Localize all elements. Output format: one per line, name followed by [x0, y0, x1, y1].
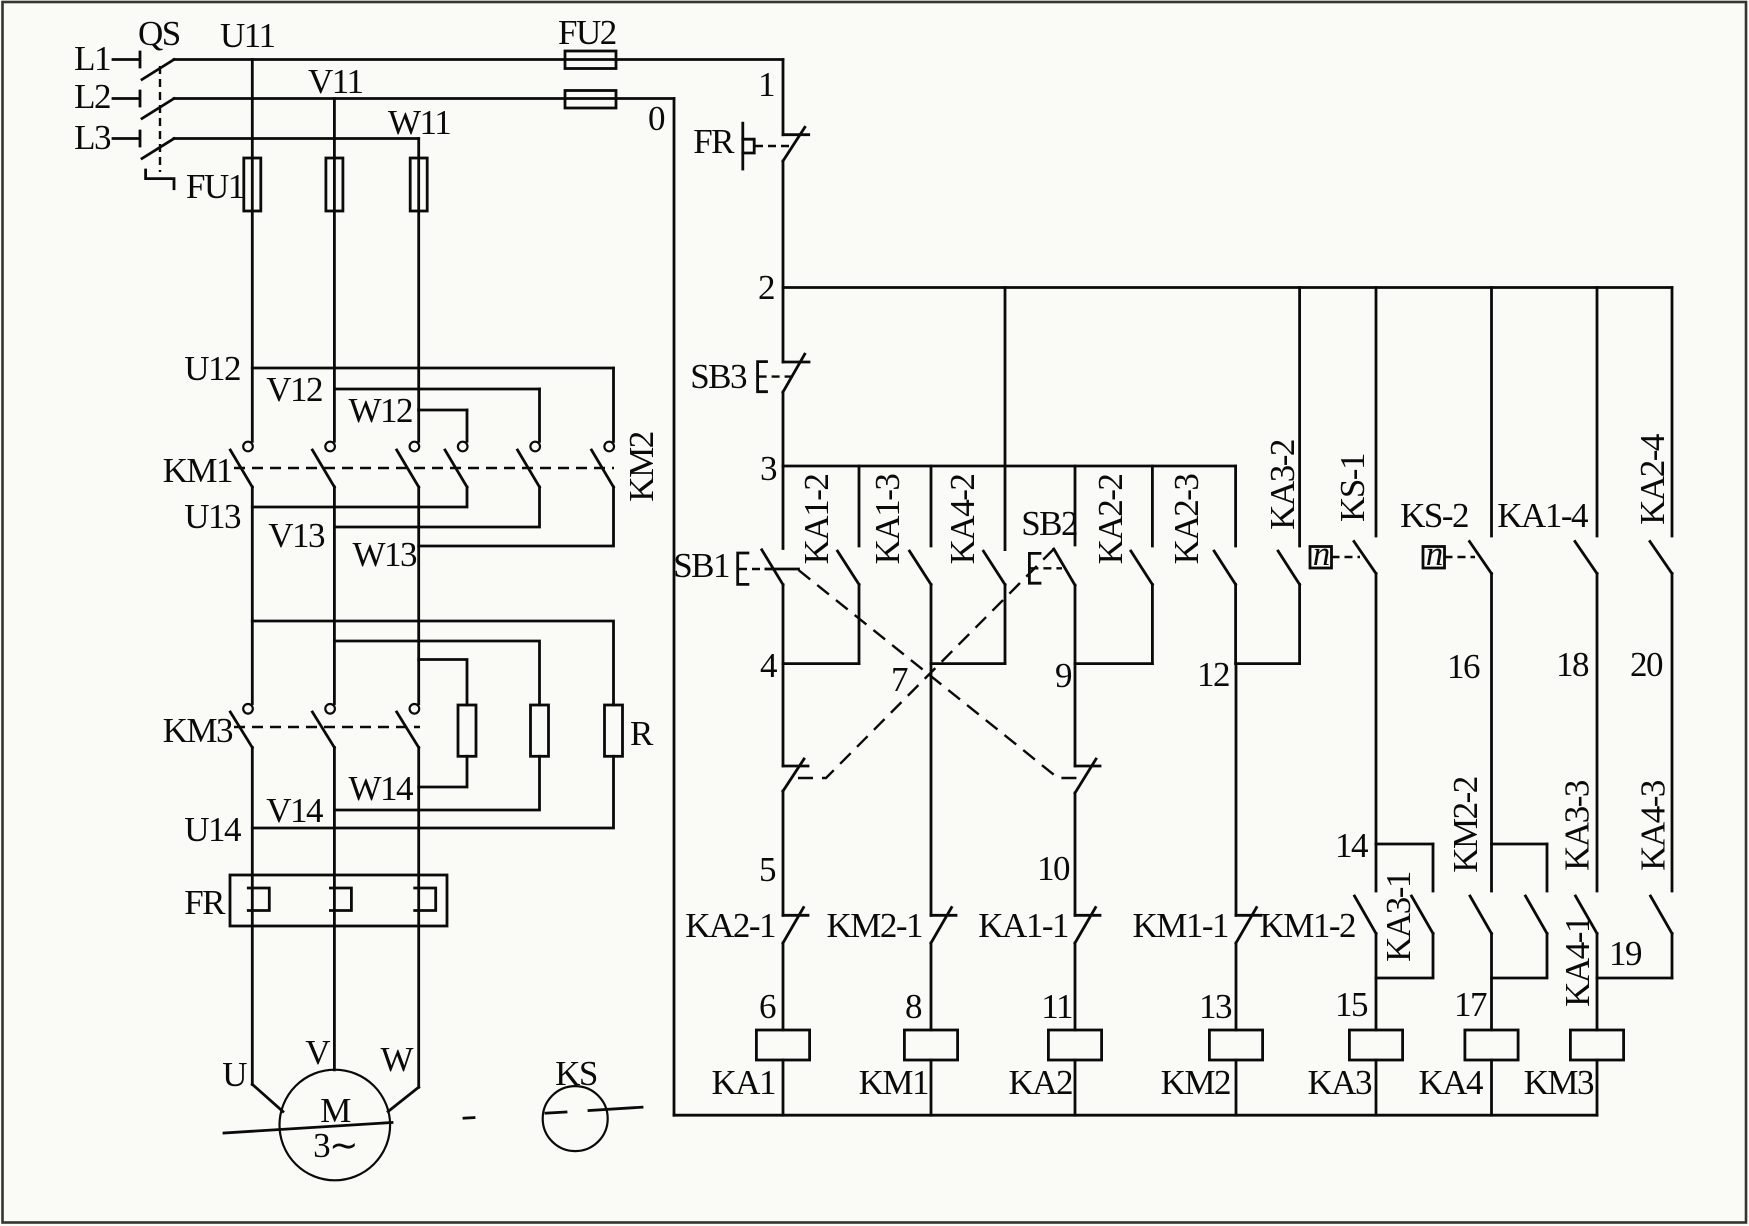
contactor KM2 main contacts [445, 368, 661, 502]
svg-text:KA3-1: KA3-1 [1379, 872, 1418, 962]
svg-text:U: U [222, 1055, 247, 1094]
svg-text:19: 19 [1609, 934, 1642, 973]
svg-text:KA1-2: KA1-2 [797, 475, 836, 565]
node 4 [760, 646, 859, 685]
svg-text:KM2-2: KM2-2 [1446, 777, 1485, 873]
resistor R (three elements) [458, 705, 654, 756]
svg-text:KM1-2: KM1-2 [1259, 906, 1355, 945]
svg-text:V12: V12 [266, 370, 322, 409]
node 12 [1197, 655, 1300, 694]
svg-text:KA3-3: KA3-3 [1558, 780, 1597, 871]
SB2 linked NC contact below node 9 [1075, 664, 1100, 916]
contact KS-1 (with n box) [1310, 288, 1376, 845]
svg-text:U11: U11 [220, 16, 274, 55]
svg-text:14: 14 [1335, 826, 1368, 865]
wire U12 [184, 349, 613, 388]
node 9 [1055, 656, 1152, 695]
svg-text:W11: W11 [388, 103, 450, 142]
wire 2 [758, 268, 1672, 307]
svg-text:U13: U13 [184, 497, 241, 536]
wire U13 [184, 487, 467, 536]
svg-text:U12: U12 [184, 349, 240, 388]
shaft coupling dash-dot line [224, 1107, 642, 1133]
svg-text:9: 9 [1055, 656, 1072, 695]
svg-text:KM1-1: KM1-1 [1132, 906, 1228, 945]
contact KA3-3 (NO) [1558, 780, 1598, 1030]
svg-text:3∼: 3∼ [313, 1126, 357, 1165]
svg-text:FU2: FU2 [558, 13, 616, 52]
node 14 [1335, 826, 1433, 865]
coil KM2 [1161, 1030, 1263, 1115]
speed switch KS [543, 1054, 608, 1151]
coil KA1 [711, 1030, 809, 1115]
svg-text:KA4-2: KA4-2 [943, 475, 982, 565]
svg-text:FU1: FU1 [186, 167, 244, 206]
svg-text:6: 6 [759, 987, 776, 1026]
contact KA1-2 [797, 466, 859, 664]
svg-text:KA4: KA4 [1418, 1063, 1483, 1102]
svg-text:12: 12 [1197, 655, 1229, 694]
svg-text:L1: L1 [74, 39, 110, 78]
SB1 mechanical link dashes [799, 570, 1084, 778]
contact KM2-2 (NO) [1446, 777, 1492, 1030]
bottom rail wire [674, 1114, 1597, 1117]
svg-text:KA2-2: KA2-2 [1091, 475, 1130, 565]
contact KM1-2 (NO) [1259, 844, 1376, 1030]
contact KA2-2 [1091, 466, 1152, 664]
svg-text:KS-1: KS-1 [1333, 454, 1372, 522]
svg-text:KA1-3: KA1-3 [868, 474, 907, 565]
coil KA3 [1307, 1030, 1402, 1115]
svg-text:SB2: SB2 [1021, 504, 1077, 543]
svg-text:20: 20 [1630, 645, 1663, 684]
svg-text:W14: W14 [348, 769, 413, 808]
wire 0 [648, 99, 674, 1116]
wire V12 [266, 370, 539, 409]
svg-text:18: 18 [1556, 645, 1589, 684]
contact KA2-4 [1633, 288, 1672, 892]
wire U-phase middle [251, 507, 254, 704]
svg-text:KM1: KM1 [859, 1063, 928, 1102]
svg-text:n: n [1313, 534, 1330, 573]
thermal relay FR heaters [184, 787, 447, 1087]
svg-text:KA2-4: KA2-4 [1633, 434, 1672, 525]
wire W14 [348, 748, 467, 809]
svg-text:KA1-1: KA1-1 [978, 906, 1068, 945]
svg-text:KA3-2: KA3-2 [1263, 440, 1302, 530]
node 7 [891, 660, 1005, 699]
SB2 mechanical link dashes [793, 549, 1054, 778]
contact KM2-1 (NC) [826, 664, 956, 1030]
svg-text:KM2-1: KM2-1 [826, 906, 922, 945]
svg-text:4: 4 [760, 646, 777, 685]
svg-text:SB3: SB3 [690, 357, 747, 396]
svg-text:KA4-3: KA4-3 [1634, 780, 1673, 871]
contact KA4-3 (NO) [1634, 780, 1673, 978]
node L3 [74, 118, 140, 157]
svg-text:W: W [380, 1040, 413, 1079]
wire V13 [268, 487, 539, 555]
coil KA4 [1418, 1030, 1518, 1115]
contact KA4-2 [943, 288, 1005, 664]
contact KA2-3 [1167, 466, 1236, 664]
node 19 [1597, 934, 1672, 978]
coil KM1 [859, 1030, 958, 1115]
svg-text:FR: FR [184, 883, 226, 922]
coil KA2 [1008, 1030, 1101, 1115]
wire W-phase upper [417, 139, 420, 411]
contact KA4-1 (NO, parallel loop) [1492, 844, 1598, 1007]
wire 1 [758, 60, 783, 135]
svg-text:13: 13 [1199, 987, 1232, 1026]
pushbutton SB1 (NC, linked) [673, 466, 798, 664]
wire W12 [348, 391, 467, 430]
svg-text:KM3: KM3 [1524, 1063, 1594, 1102]
svg-text:KS-2: KS-2 [1400, 496, 1468, 535]
svg-text:10: 10 [1037, 849, 1070, 888]
contact KA3-1 (NO, parallel loop) [1376, 844, 1433, 978]
wire U11 [174, 16, 783, 60]
contact KA1-4 [1497, 288, 1597, 892]
svg-text:R: R [630, 714, 654, 753]
svg-text:KA2: KA2 [1008, 1063, 1072, 1102]
contactor KM1 main contacts [163, 368, 614, 490]
motor M 3-phase [222, 1033, 418, 1180]
contact KS-2 (with n box) [1400, 288, 1491, 845]
wire to resistor R branch U [252, 621, 613, 705]
fuse FU2 [558, 13, 616, 108]
svg-text:8: 8 [905, 987, 922, 1026]
svg-text:L3: L3 [74, 118, 111, 157]
svg-text:KA1: KA1 [711, 1063, 775, 1102]
wire to resistor branch V [334, 641, 539, 705]
wire W-phase middle [417, 546, 420, 704]
svg-text:2: 2 [758, 268, 774, 307]
svg-text:KA3: KA3 [1307, 1063, 1372, 1102]
contact KA2-1 (NC) [685, 906, 808, 1030]
wire U14 [184, 748, 613, 850]
svg-text:KM1: KM1 [163, 451, 232, 490]
svg-text:SB1: SB1 [673, 546, 729, 585]
coil KM3 [1524, 1030, 1624, 1115]
svg-text:V14: V14 [266, 791, 323, 830]
wire W13 [352, 487, 613, 574]
svg-text:7: 7 [891, 660, 908, 699]
contact KA3-2 [1263, 288, 1302, 664]
wire W11 [174, 103, 450, 142]
switch QS [138, 14, 180, 189]
fuse FU1 [186, 158, 427, 211]
svg-text:17: 17 [1454, 985, 1487, 1024]
wire 3 [760, 449, 1236, 488]
svg-text:V: V [305, 1033, 330, 1072]
contactor KM3 contacts [163, 704, 420, 750]
svg-text:0: 0 [648, 99, 665, 138]
svg-text:11: 11 [1041, 987, 1072, 1026]
svg-text:KA2-1: KA2-1 [685, 906, 775, 945]
FR control contact (NC) [693, 122, 809, 288]
svg-text:W12: W12 [348, 391, 412, 430]
wire V14 [266, 748, 539, 831]
contact KA1-1 (NC) [978, 906, 1100, 1030]
svg-text:KA1-4: KA1-4 [1497, 496, 1588, 535]
SB1 linked NO contact below node 4 [783, 664, 808, 916]
svg-text:KM2: KM2 [622, 432, 661, 501]
svg-text:W13: W13 [352, 535, 417, 574]
svg-text:QS: QS [138, 14, 180, 53]
wire V-phase middle [333, 527, 336, 704]
node 16 loop [1492, 843, 1548, 846]
svg-text:1: 1 [758, 65, 774, 104]
svg-text:L2: L2 [74, 77, 110, 116]
svg-text:3: 3 [760, 449, 777, 488]
svg-text:15: 15 [1335, 985, 1368, 1024]
svg-text:V11: V11 [308, 62, 362, 101]
contact KM1-1 (NC) [1132, 664, 1261, 1030]
svg-text:16: 16 [1447, 647, 1480, 686]
wire V-phase upper [333, 99, 336, 390]
svg-text:KA2-3: KA2-3 [1167, 474, 1206, 565]
wire V11 [174, 62, 674, 101]
wire U-phase upper [251, 60, 254, 369]
node L1 [74, 39, 140, 78]
svg-text:KA4-1: KA4-1 [1558, 917, 1597, 1007]
node L2 [74, 77, 140, 116]
pushbutton SB2 (start, NO, linked) [1021, 466, 1077, 664]
svg-text:5: 5 [759, 850, 776, 889]
svg-text:KM2: KM2 [1161, 1063, 1230, 1102]
svg-text:V13: V13 [268, 516, 325, 555]
wire to resistor branch W [419, 660, 467, 706]
svg-text:FR: FR [693, 122, 735, 161]
svg-text:KM3: KM3 [163, 711, 233, 750]
pushbutton SB3 (stop, NC) [690, 288, 809, 467]
contact KA1-3 [868, 466, 931, 664]
svg-text:U14: U14 [184, 810, 241, 849]
svg-text:n: n [1426, 534, 1443, 573]
